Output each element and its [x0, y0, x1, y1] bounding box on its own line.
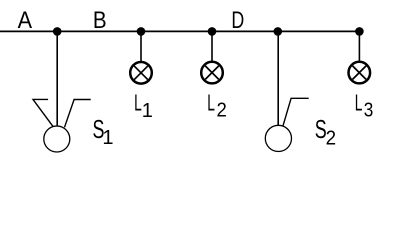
junction dot at L3 tap (end of bus): [355, 27, 364, 36]
svg-text:1: 1: [142, 100, 153, 122]
wire: main horizontal bus from A to L3 node: [0, 30, 360, 32]
svg-text:3: 3: [364, 98, 374, 121]
lamp L1 label: [134, 91, 142, 116]
lamp L2 label: [207, 91, 215, 116]
svg-text:2: 2: [217, 100, 227, 122]
svg-text:L: L: [134, 91, 142, 116]
node D label: [231, 6, 244, 33]
lamp L1 (circle with X): [130, 62, 152, 84]
node A label: [18, 6, 33, 34]
lamp L1 label subscript 1: [142, 100, 153, 122]
switch S1 right contact and blade: [65, 100, 91, 128]
wire: vertical lead from bus to lamp L3: [358, 31, 360, 61]
svg-text:A: A: [18, 6, 33, 34]
node B label: [93, 6, 107, 33]
wire: vertical lead from bus to lamp L2: [211, 31, 213, 61]
svg-text:L: L: [355, 91, 363, 116]
switch S2 label: [315, 115, 327, 144]
svg-text:2: 2: [326, 127, 336, 150]
lamp L3 label: [355, 91, 363, 116]
junction dot at L2 tap: [208, 27, 217, 36]
lamp L3 (circle with X): [349, 62, 371, 84]
lamp L2 label subscript 2: [217, 100, 227, 122]
switch S2 body (rotary handle circle): [265, 125, 291, 151]
svg-text:B: B: [93, 6, 107, 33]
switch S1 body (rotary handle circle): [44, 126, 70, 152]
lamp L3 label subscript 3: [364, 98, 374, 121]
wire: vertical lead from bus to lamp L1: [140, 31, 142, 61]
switch S1 label subscript 1: [102, 127, 113, 149]
wire: vertical lead from bus to switch S2: [277, 31, 279, 125]
switch S1 label: [93, 115, 105, 144]
switch S1 left contact and blade: [33, 99, 53, 126]
junction dot at L1 tap: [137, 27, 146, 36]
junction dot at S1 tap: [53, 27, 62, 36]
switch S2 label subscript 2: [326, 127, 336, 150]
svg-text:1: 1: [102, 127, 113, 149]
switch S2 contact and blade: [283, 98, 309, 126]
junction dot at S2 tap: [274, 27, 283, 36]
wire: vertical lead from bus to switch S1: [56, 31, 58, 126]
svg-text:L: L: [207, 91, 215, 116]
svg-text:D: D: [231, 6, 244, 33]
lamp L2 (circle with X): [201, 62, 223, 84]
